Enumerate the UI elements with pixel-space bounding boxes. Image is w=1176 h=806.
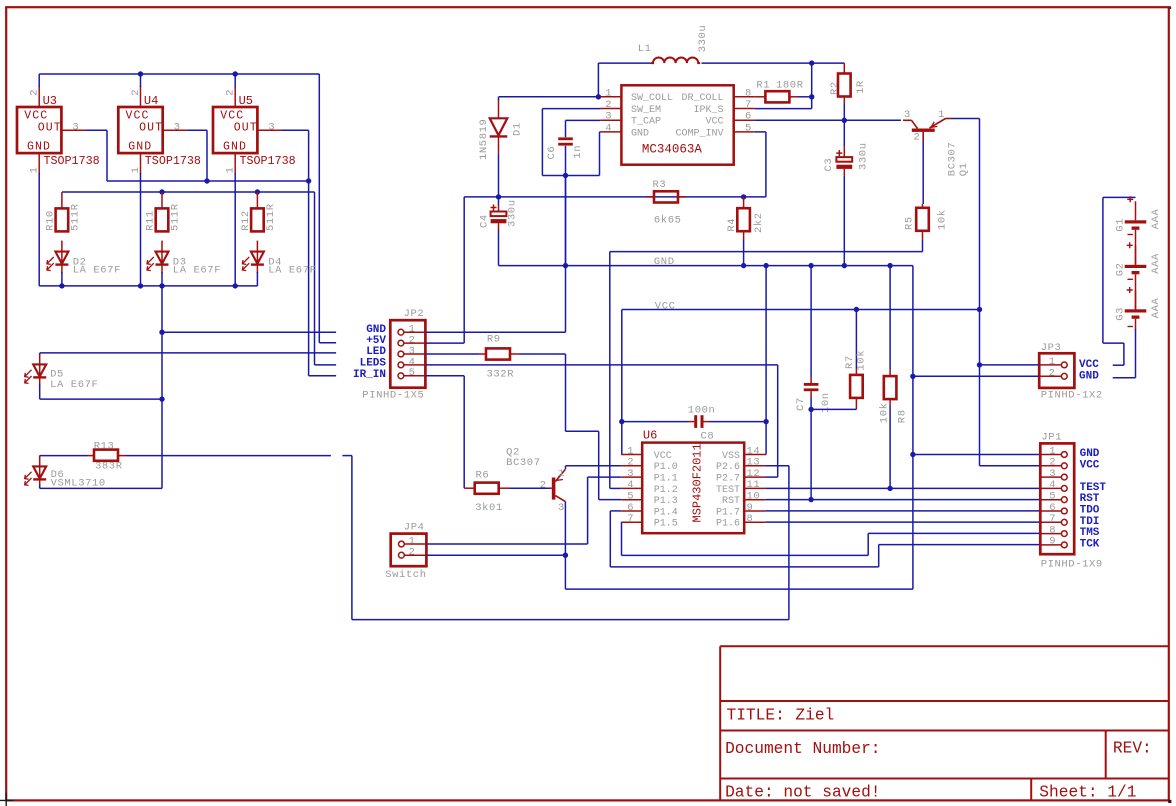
svg-text:BC307: BC307	[947, 142, 959, 177]
junction D3 cathode rail	[159, 283, 164, 288]
svg-text:2: 2	[914, 132, 920, 144]
wire P1.5 bottom row	[622, 554, 869, 556]
diode D1 (1N5819)	[490, 99, 508, 154]
wire C4 bottom	[498, 230, 500, 266]
wire JP3 pin1 row	[980, 364, 1040, 366]
wire D6 cathode down	[39, 485, 41, 488]
svg-text:G3: G3	[1114, 307, 1126, 321]
svg-text:2: 2	[627, 457, 633, 469]
wire C4 top	[498, 197, 500, 205]
wire JP3 pin2 row	[913, 375, 1039, 377]
wire TDI row	[765, 521, 1040, 523]
wire MC pin5 row	[755, 131, 766, 133]
resistor R9 (332R)	[479, 348, 519, 359]
svg-text:DR_COLL: DR_COLL	[681, 93, 723, 104]
svg-text:T_CAP: T_CAP	[631, 117, 661, 128]
svg-text:TSOP1738: TSOP1738	[240, 154, 296, 168]
svg-text:14: 14	[747, 445, 761, 457]
wire R8 bottom to TEST	[889, 406, 891, 488]
svg-text:P1.1: P1.1	[654, 474, 678, 485]
svg-text:LA E67F: LA E67F	[173, 264, 221, 276]
IC U6 (MSP430F2011)	[621, 443, 765, 534]
svg-text:3: 3	[174, 121, 180, 133]
wire U4 pin1 down	[140, 173, 142, 286]
IR LED D4 (LA E67F)	[242, 241, 264, 274]
resistor R5 (10k)	[916, 204, 929, 240]
svg-text:P1.6: P1.6	[716, 519, 740, 530]
wire MC pin7 row	[755, 108, 812, 110]
svg-text:1R: 1R	[855, 80, 867, 94]
battery minus sign G1-	[1128, 234, 1133, 236]
wire JP1 pin2 vcc row	[980, 465, 1041, 467]
wire RST row	[765, 499, 1040, 501]
wire JP4 pin1 row	[426, 543, 587, 545]
connector JP2 (PINHD-1X5)	[390, 320, 425, 388]
wire JP2 pin5 drop to R6	[463, 376, 465, 488]
svg-text:R5: R5	[904, 216, 916, 230]
capacitor C6 (1n)	[558, 137, 573, 145]
svg-text:AAA: AAA	[1150, 208, 1162, 229]
svg-text:TEST: TEST	[716, 485, 740, 496]
svg-text:R11: R11	[145, 210, 157, 231]
wire TCK jog up	[878, 545, 880, 567]
battery cell G1 (AAA)	[1125, 201, 1147, 264]
wire R13 net resume	[342, 455, 352, 457]
svg-text:G2: G2	[1114, 262, 1126, 276]
wire U5 pin1 down	[234, 173, 236, 286]
svg-text:TDO: TDO	[1080, 505, 1100, 517]
svg-text:2: 2	[1049, 368, 1055, 380]
wire +5V net down	[318, 74, 320, 343]
connector JP3 (PINHD-1X2)	[1039, 353, 1074, 388]
wire JP1 pin1 gnd row	[913, 454, 1040, 456]
wire bottom row to P2.6	[352, 619, 789, 621]
junction R2 bottom / pin6	[842, 118, 847, 123]
junction C3 gnd	[842, 263, 847, 268]
junction RST net	[808, 497, 813, 502]
svg-text:GND: GND	[27, 141, 51, 154]
junction R1 right	[809, 94, 814, 99]
svg-text:R1: R1	[756, 80, 770, 92]
junction C8 left	[619, 419, 624, 424]
wire MC pin2 drop	[541, 109, 543, 176]
svg-text:511R: 511R	[170, 203, 182, 231]
svg-text:9: 9	[747, 502, 753, 514]
junction C7 gnd	[808, 263, 813, 268]
svg-text:AAA: AAA	[1150, 297, 1162, 318]
wire battery jog drop	[1123, 343, 1125, 365]
svg-text:100n: 100n	[688, 404, 716, 416]
wire TSOP gnd rail	[39, 285, 257, 287]
junction R1 net top	[809, 60, 814, 65]
svg-text:1: 1	[938, 109, 944, 121]
svg-text:U6: U6	[643, 428, 657, 442]
wire GND stub row	[162, 331, 336, 333]
svg-text:1: 1	[627, 445, 633, 457]
svg-text:8: 8	[1049, 524, 1055, 536]
frame corner mark top-right	[1169, 6, 1172, 9]
svg-text:5: 5	[1049, 491, 1055, 503]
svg-text:1: 1	[130, 167, 142, 173]
IC MC34063A	[600, 85, 754, 164]
svg-text:7: 7	[745, 99, 751, 111]
wire VCC top rail	[39, 73, 319, 75]
svg-text:C8: C8	[701, 430, 715, 442]
svg-text:R13: R13	[94, 440, 115, 452]
resistor R7 (10k)	[850, 369, 863, 410]
wire C6 net to gnd rail	[565, 176, 567, 266]
svg-text:R12: R12	[240, 210, 252, 231]
svg-text:4: 4	[605, 122, 611, 134]
svg-text:P1.3: P1.3	[654, 496, 678, 507]
wire MC pin6 row	[755, 119, 901, 121]
IR LED D3 (LA E67F)	[147, 241, 169, 274]
transistor Q1 (BC307 PNP)	[903, 119, 952, 142]
wire battery VCC stub	[1113, 364, 1124, 366]
svg-text:511R: 511R	[70, 203, 82, 231]
wire JP2 pin4 LEDS row	[425, 364, 777, 366]
resistor R4 (2k2)	[737, 197, 750, 240]
wire MC pin3 row	[566, 119, 601, 121]
svg-text:4: 4	[627, 479, 633, 491]
svg-text:6: 6	[1049, 502, 1055, 514]
svg-text:1: 1	[1049, 445, 1055, 457]
wire R13 right	[126, 455, 331, 457]
svg-text:PINHD-1X2: PINHD-1X2	[1041, 390, 1103, 402]
wire TMS jog up	[867, 533, 869, 555]
svg-text:VCC: VCC	[1080, 459, 1100, 471]
svg-text:P1.7: P1.7	[716, 507, 740, 518]
svg-text:GND: GND	[128, 141, 152, 154]
svg-text:3: 3	[1049, 468, 1055, 480]
junction VCC JP3	[977, 362, 982, 367]
svg-text:GND: GND	[1079, 370, 1099, 382]
IR receiver module U5 (TSOP1738)	[213, 86, 282, 174]
svg-text:C7: C7	[795, 397, 807, 411]
svg-text:RST: RST	[722, 496, 740, 507]
svg-text:383R: 383R	[95, 461, 123, 473]
svg-text:330u: 330u	[858, 142, 870, 170]
wire U3 pin2 to rail	[38, 74, 40, 87]
svg-text:Sheet: 1/1: Sheet: 1/1	[1039, 783, 1136, 801]
svg-text:Switch: Switch	[385, 569, 426, 581]
junction L1 left / pin1	[596, 94, 601, 99]
wire D2 cathode	[61, 272, 63, 286]
wire JP2 pin1 row	[425, 331, 565, 333]
resistor R10 (511R)	[56, 192, 69, 231]
wire D6 anode drop	[39, 456, 41, 459]
svg-text:SW_EM: SW_EM	[631, 105, 661, 116]
wire Q1 collector down	[922, 142, 924, 205]
wire battery jog row	[1103, 342, 1124, 344]
svg-text:6: 6	[745, 111, 751, 123]
svg-text:R4: R4	[726, 218, 738, 232]
svg-text:GND: GND	[654, 256, 675, 268]
svg-text:GND: GND	[1080, 448, 1100, 460]
junction R8 gnd	[887, 263, 892, 268]
svg-text:1: 1	[225, 167, 237, 173]
svg-text:TSOP1738: TSOP1738	[145, 154, 201, 168]
resistor R6 (3k01)	[464, 483, 509, 494]
wire R7 bottom row	[811, 408, 856, 410]
wire L1 left drop	[597, 63, 599, 97]
svg-text:R6: R6	[476, 470, 490, 482]
wire LED anode rail	[62, 191, 315, 193]
resistor R3 (6k65)	[646, 191, 686, 202]
svg-text:2: 2	[225, 89, 237, 95]
frame corner crosshair bottom-left	[0, 793, 14, 806]
svg-text:1: 1	[558, 468, 564, 480]
junction OUT U4	[204, 178, 209, 183]
wire OUT net down U3	[106, 130, 108, 181]
svg-text:LEDS: LEDS	[360, 357, 387, 369]
junction U4 VCC	[138, 71, 143, 76]
wire VCC to U6 pin1	[621, 310, 623, 455]
wire JP2 pin1 riser	[565, 176, 567, 333]
wire R5 rail	[610, 251, 923, 253]
svg-text:8: 8	[745, 87, 751, 99]
svg-text:4: 4	[1049, 479, 1055, 491]
svg-text:1: 1	[1049, 356, 1055, 368]
wire Q2 emitter drop	[565, 466, 567, 469]
svg-text:6: 6	[627, 502, 633, 514]
wire R2 to C3	[843, 104, 845, 146]
junction JP3 gnd branch	[910, 374, 915, 379]
wire VSS riser	[765, 266, 767, 455]
capacitor C4 (330u electrolytic)	[498, 204, 500, 212]
wire R1 riser	[811, 63, 813, 109]
wire OUT net down U4	[206, 130, 208, 181]
wire U6 pin12 row P2.7	[765, 476, 778, 478]
wire R7 top	[855, 310, 857, 369]
wire C3 bottom	[843, 176, 845, 266]
wire MC pin1 row	[499, 96, 601, 98]
svg-text:10: 10	[747, 491, 761, 503]
wire IR_IN stub row	[309, 375, 337, 377]
svg-text:TCK: TCK	[1080, 538, 1100, 550]
svg-text:RST: RST	[1080, 493, 1100, 505]
wire Q2 collector drop	[564, 502, 566, 556]
wire P1.4 bottom row	[610, 566, 878, 568]
resistor R13 (383R)	[88, 450, 126, 461]
svg-text:10k: 10k	[879, 402, 891, 423]
C7 bottom lead	[810, 391, 812, 397]
wire R5 bottom	[922, 240, 924, 252]
svg-text:VSS: VSS	[722, 451, 740, 462]
svg-text:C6: C6	[546, 146, 558, 160]
junction D5 cathode row	[159, 396, 164, 401]
wire MC pin5 drop	[765, 132, 767, 197]
resistor R2 (1R)	[838, 63, 851, 104]
C3 plates	[836, 150, 852, 169]
wire R9 net jog	[566, 430, 599, 432]
wire U6 pin5 row P1.3	[599, 499, 622, 501]
wire P1.5 drop	[621, 522, 623, 555]
svg-text:5: 5	[627, 491, 633, 503]
capacitor C3 (330u electrolytic)	[843, 146, 845, 157]
svg-text:P1.0: P1.0	[654, 462, 678, 473]
svg-text:8: 8	[747, 513, 753, 525]
wire D5 cathode row	[40, 398, 162, 400]
wire JP2 pin3 row to R9	[425, 353, 479, 355]
connector JP4 (Switch)	[391, 534, 427, 567]
wire D3 cathode	[161, 272, 163, 286]
svg-text:3: 3	[605, 111, 611, 123]
svg-text:Document Number:: Document Number:	[725, 740, 880, 758]
C4 bottom lead	[498, 223, 500, 230]
junction R4 gnd	[741, 263, 746, 268]
junction VSS gnd	[763, 263, 768, 268]
junction C6 net gnd	[563, 263, 568, 268]
svg-text:10k: 10k	[937, 209, 949, 230]
wire MC pin4 drop	[599, 132, 601, 176]
svg-text:2: 2	[130, 89, 142, 95]
wire led-gnd column	[161, 286, 163, 489]
wire LED net to D5	[39, 353, 41, 356]
wire LEDS drop to P2.7	[777, 365, 779, 477]
svg-text:REV:: REV:	[1113, 739, 1152, 757]
IR receiver module U4 (TSOP1738)	[118, 86, 187, 174]
wire C7 top	[810, 266, 812, 377]
svg-text:3: 3	[627, 468, 633, 480]
svg-text:COMP_INV: COMP_INV	[675, 128, 723, 139]
wire P1.1 drop to JP4	[587, 477, 589, 544]
svg-text:12: 12	[747, 468, 761, 480]
svg-text:1: 1	[29, 167, 41, 173]
junction R7 bottom row	[808, 407, 813, 412]
svg-text:VCC: VCC	[705, 117, 723, 128]
svg-text:R7: R7	[844, 355, 856, 369]
svg-text:2: 2	[409, 547, 415, 559]
svg-text:MC34063A: MC34063A	[642, 143, 703, 157]
junction R12 top	[255, 189, 260, 194]
wire U3 OUT right	[86, 129, 107, 131]
svg-text:180R: 180R	[776, 80, 804, 92]
svg-text:2k2: 2k2	[753, 212, 765, 233]
transistor Q2 (BC307 PNP)	[549, 469, 565, 501]
junction C6 bottom	[563, 173, 568, 178]
wire C6 bottom lead	[565, 146, 567, 176]
svg-text:9: 9	[1049, 536, 1055, 548]
svg-text:JP1: JP1	[1041, 431, 1062, 443]
wire TDO row	[765, 510, 1040, 512]
svg-text:U3: U3	[43, 94, 57, 108]
wire U6 pin6 row P1.4	[610, 510, 621, 512]
wire +5V stub row	[319, 342, 336, 344]
wire D6 anode row	[40, 455, 88, 457]
wire U5 OUT right	[282, 129, 309, 131]
svg-text:LA E67F: LA E67F	[73, 264, 121, 276]
svg-text:10k: 10k	[856, 350, 868, 371]
capacitor C7 plates	[804, 383, 819, 391]
title block outline	[720, 646, 1169, 800]
svg-text:5: 5	[409, 367, 415, 379]
wire TEST row	[765, 487, 1040, 489]
svg-text:AAA: AAA	[1150, 253, 1162, 274]
svg-text:R2: R2	[829, 81, 841, 95]
wire U4 OUT right	[187, 129, 207, 131]
svg-text:U5: U5	[239, 94, 253, 108]
battery cell G2 (AAA)	[1125, 246, 1147, 309]
svg-text:330u: 330u	[697, 25, 709, 53]
IR receiver module U3 (TSOP1738)	[17, 86, 86, 174]
frame corner mark bottom-right	[1168, 800, 1171, 803]
C3 bottom lead	[843, 169, 845, 176]
wire JP2 pin5 row	[425, 375, 464, 377]
battery cell G3 (AAA)	[1125, 290, 1147, 330]
wire VCC rail	[622, 309, 980, 311]
svg-text:1n: 1n	[572, 145, 584, 159]
wire bottom gnd row	[565, 588, 913, 590]
junction JP1 gnd branch	[910, 452, 915, 457]
svg-text:TITLE:: TITLE:	[727, 706, 785, 724]
wire R13 net down	[351, 456, 353, 620]
svg-text:LED: LED	[366, 346, 386, 358]
wire TCK row	[879, 544, 1041, 546]
svg-text:332R: 332R	[487, 369, 515, 381]
junction R7 top vcc	[854, 307, 859, 312]
junction gnd row stub	[159, 330, 164, 335]
wire P1.4 drop	[609, 511, 611, 567]
wire D1 anode row	[498, 97, 500, 100]
wire U6 pin13 row P2.6	[765, 465, 789, 467]
wire U5 pin2 to rail	[234, 74, 236, 87]
svg-text:LA E67F: LA E67F	[268, 264, 316, 276]
svg-text:2: 2	[605, 99, 611, 111]
svg-text:TSOP1738: TSOP1738	[44, 154, 100, 168]
wire switch net drop	[564, 555, 566, 589]
resistor R12 (511R)	[251, 192, 264, 231]
wire R9 net down	[565, 354, 567, 431]
wire battery left drop	[1102, 197, 1104, 343]
svg-text:11: 11	[747, 479, 761, 491]
svg-text:JP2: JP2	[404, 308, 425, 320]
svg-text:OUT: OUT	[139, 121, 163, 134]
svg-text:P2.6: P2.6	[716, 462, 740, 473]
junction R4 top	[741, 194, 746, 199]
svg-text:D1: D1	[512, 122, 524, 136]
wire GND right drop	[912, 266, 914, 589]
wire R1 right	[798, 96, 812, 98]
svg-text:330u: 330u	[507, 199, 519, 227]
svg-text:GND: GND	[366, 324, 386, 336]
svg-text:3: 3	[268, 121, 274, 133]
svg-text:13: 13	[747, 457, 761, 469]
wire JP2 pin2 riser to +5V	[463, 197, 465, 343]
svg-text:GND: GND	[631, 128, 649, 139]
resistor R11 (511R)	[156, 192, 169, 231]
IR LED D5 (LA E67F)	[25, 353, 47, 386]
wire U6 pin14 row VSS	[764, 454, 767, 456]
svg-text:IPK_S: IPK_S	[693, 105, 723, 116]
svg-text:1N5819: 1N5819	[478, 119, 490, 160]
junction R11 top	[159, 189, 164, 194]
wire U4 pin2 to rail	[140, 74, 142, 87]
wire OUT net rail	[107, 180, 309, 182]
wire R8 top	[889, 266, 891, 370]
wire P2.6 riser	[788, 466, 790, 620]
resistor R1 (180R)	[755, 91, 798, 102]
svg-text:6k65: 6k65	[654, 215, 682, 227]
svg-text:P1.5: P1.5	[654, 519, 678, 530]
wire D4 cathode	[256, 272, 258, 286]
wire battery minus drop	[1135, 329, 1137, 378]
svg-text:3: 3	[72, 121, 78, 133]
wire U3 pin1 down	[38, 173, 40, 286]
svg-text:2: 2	[1049, 457, 1055, 469]
inductor L1 (330u)	[651, 57, 700, 63]
wire L1 row left	[598, 62, 651, 64]
